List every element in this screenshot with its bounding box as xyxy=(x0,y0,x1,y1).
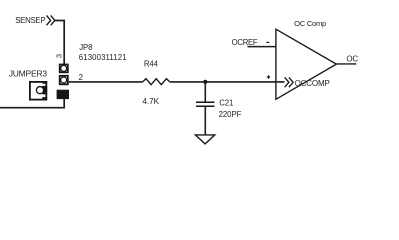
wire from JP8 pin 1 down and left to edge xyxy=(0,99,64,108)
node SENSEP off-page connector chevrons xyxy=(47,15,55,25)
output wire xyxy=(336,63,356,65)
node OCCOMP off-page connector chevrons xyxy=(285,77,293,87)
svg-text:OC Comp: OC Comp xyxy=(294,19,326,28)
plus input marker xyxy=(267,75,270,78)
wire from SENSEP to JP8 pin 3 xyxy=(55,21,64,65)
svg-text:OCCOMP: OCCOMP xyxy=(295,79,330,88)
minus input marker xyxy=(266,41,269,43)
svg-text:JP8: JP8 xyxy=(79,43,92,52)
svg-text:61300311121: 61300311121 xyxy=(79,53,127,62)
wire OCREF to comparator xyxy=(248,46,276,48)
svg-text:JUMPER3: JUMPER3 xyxy=(9,68,48,78)
resistor R44 zigzag xyxy=(143,79,170,85)
op-amp comparator triangle xyxy=(276,29,337,99)
wire R44 to comparator input xyxy=(170,81,285,83)
svg-text:220PF: 220PF xyxy=(219,110,242,119)
svg-text:2: 2 xyxy=(79,73,83,82)
ground symbol xyxy=(195,135,214,144)
svg-text:3: 3 xyxy=(55,54,64,58)
svg-text:SENSEP: SENSEP xyxy=(15,16,45,25)
svg-text:OCREF: OCREF xyxy=(232,38,258,47)
wire junction down to C21 xyxy=(204,82,206,102)
junction node dot xyxy=(203,80,207,84)
svg-text:OC: OC xyxy=(346,54,358,63)
connector JP8 pin 3 pad xyxy=(60,65,68,73)
jumper J symbol body xyxy=(30,81,47,101)
connector JP8 pin 1 pad (filled) xyxy=(57,90,69,99)
connector JP8 pin 2 pad xyxy=(60,76,68,85)
wire pin2 to R44 xyxy=(69,81,143,83)
svg-text:R44: R44 xyxy=(144,59,159,68)
svg-text:C21: C21 xyxy=(219,99,233,108)
capacitor C21 plates xyxy=(196,102,215,106)
svg-text:4.7K: 4.7K xyxy=(142,97,159,106)
wire C21 to ground xyxy=(204,107,206,135)
